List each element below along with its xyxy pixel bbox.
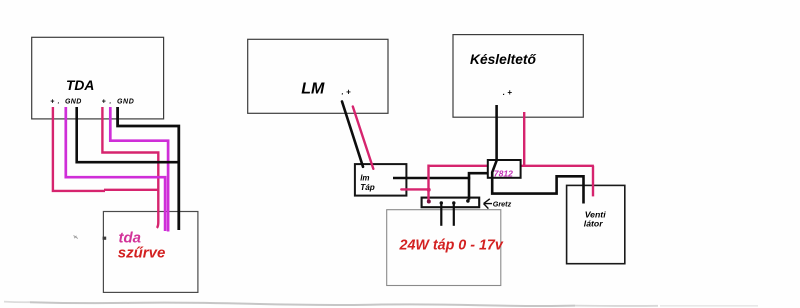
svg-text:. +: . +	[503, 88, 512, 97]
svg-text:24W táp 0 - 17v: 24W táp 0 - 17v	[399, 238, 504, 254]
svg-text:Késleltető: Késleltető	[470, 52, 537, 67]
svg-text:+: +	[102, 99, 106, 106]
svg-text:GND: GND	[117, 99, 134, 106]
svg-text:látor: látor	[584, 218, 603, 228]
svg-text:+: +	[50, 99, 54, 106]
svg-text:.: .	[109, 99, 111, 106]
svg-text:Táp: Táp	[360, 183, 375, 192]
svg-text:GND: GND	[65, 99, 82, 106]
svg-text:TDA: TDA	[66, 78, 94, 93]
svg-text:.: .	[58, 99, 60, 106]
svg-text:. +: . +	[342, 88, 351, 97]
svg-text:szűrve: szűrve	[118, 244, 166, 261]
svg-text:Gretz: Gretz	[493, 200, 512, 209]
svg-text:7812: 7812	[494, 169, 513, 179]
svg-text:LM: LM	[301, 80, 325, 97]
svg-text:lm: lm	[360, 173, 369, 182]
